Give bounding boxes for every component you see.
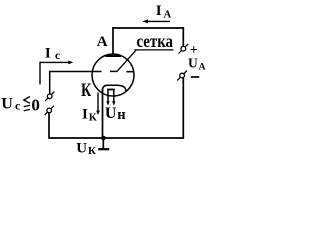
svg-text:I: I (82, 107, 88, 123)
wire bottom rail (49, 137, 184, 139)
anode plate (106, 55, 122, 57)
ground stub UK (102, 138, 104, 149)
svg-text:К: К (88, 145, 96, 157)
wire left lower (terminal to rail) (48, 113, 50, 139)
pointer line to grid label (117, 50, 136, 71)
svg-text:К: К (89, 111, 97, 123)
svg-text:н: н (117, 107, 125, 123)
svg-text:А: А (97, 34, 108, 50)
svg-text:U: U (1, 95, 13, 112)
svg-text:с: с (55, 50, 60, 62)
tube envelope circle (92, 54, 134, 96)
svg-text:К: К (81, 80, 91, 101)
cathode lead (102, 89, 104, 139)
svg-text:А: А (164, 9, 172, 20)
wire right lower (182, 78, 184, 138)
anode lead (112, 27, 114, 56)
svg-text:I: I (156, 3, 162, 19)
svg-text:0: 0 (31, 95, 40, 114)
heater arrowheads (106, 101, 109, 105)
wire top (anode to right) (112, 27, 184, 29)
svg-text:U: U (188, 55, 198, 70)
arrow IK (pointing down) (97, 93, 99, 112)
lessgtr symbol (24, 97, 30, 104)
minus sign (191, 76, 200, 78)
svg-text:I: I (45, 45, 51, 61)
heater (filament) (107, 90, 109, 101)
svg-text:с: с (15, 99, 21, 113)
wire left upper (grid to terminal) (49, 71, 51, 94)
terminal grid upper (45, 92, 54, 101)
terminal - (anode supply) (177, 71, 187, 81)
arrow IA (pointing left) (145, 20, 170, 22)
terminal grid lower (45, 106, 54, 115)
grid (dashed) with lead wire to the left (50, 71, 102, 73)
cathode (arch) (102, 85, 126, 91)
svg-text:U: U (76, 140, 87, 156)
terminal + (anode supply) (179, 44, 189, 54)
svg-text:А: А (199, 63, 206, 73)
svg-text:сетка: сетка (137, 31, 174, 51)
svg-text:U: U (105, 105, 117, 122)
junction dot (101, 136, 106, 141)
wire right upper (182, 28, 184, 46)
arrow IC (L-shaped, pointing right) (40, 61, 69, 63)
